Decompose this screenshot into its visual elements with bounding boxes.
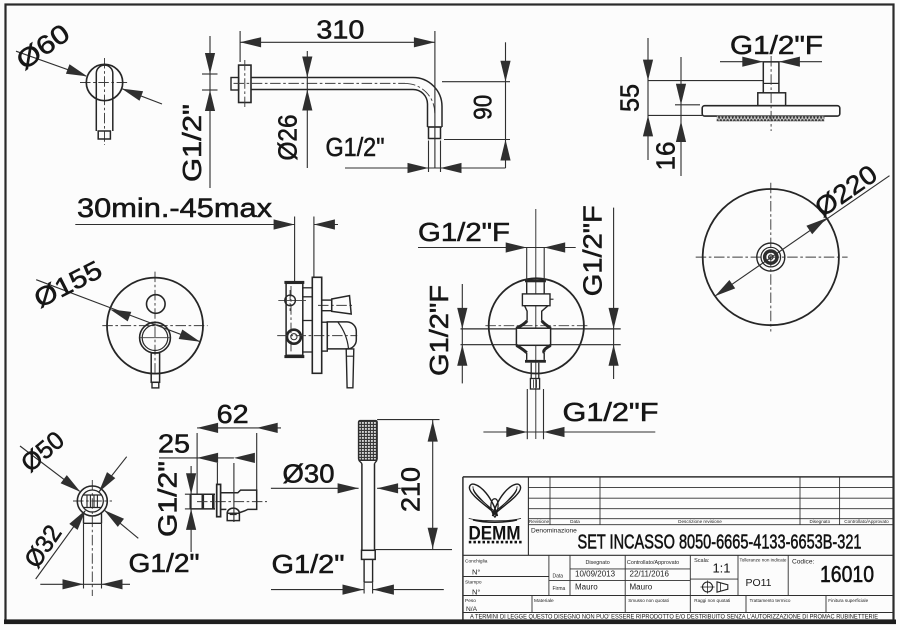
title block left cells Conchiglia Stampo Peso bbox=[465, 558, 488, 613]
mixer wall plate side view bbox=[312, 277, 321, 373]
svg-text:G1/2": G1/2" bbox=[177, 104, 207, 182]
dimension G1/2F valve top port bbox=[418, 217, 576, 280]
svg-text:Codice:: Codice: bbox=[792, 559, 815, 566]
valve front view port lines bbox=[461, 326, 621, 345]
svg-text:SET INCASSO 8050-6665-4133-665: SET INCASSO 8050-6665-4133-6653B-321 bbox=[578, 531, 862, 554]
svg-text:G1/2"F: G1/2"F bbox=[730, 30, 823, 60]
svg-text:62: 62 bbox=[217, 399, 249, 429]
valve front view body cross bbox=[489, 278, 584, 389]
svg-text:Tolleranze non indicate: Tolleranze non indicate bbox=[740, 558, 787, 563]
dimension Ø50 leader bbox=[20, 446, 138, 538]
svg-text:210: 210 bbox=[396, 467, 426, 512]
svg-text:Trattamento termico: Trattamento termico bbox=[750, 598, 791, 603]
label Ø32 bbox=[19, 520, 67, 573]
bracket inlet pipe side view bbox=[190, 494, 267, 509]
dimension Ø60 leader bbox=[16, 51, 162, 104]
svg-text:G1/2": G1/2" bbox=[129, 548, 200, 578]
dimension G1/2F head stem bbox=[720, 30, 823, 67]
dimension G1/2F valve bottom port bbox=[483, 389, 658, 439]
svg-text:Revisione: Revisione bbox=[529, 519, 550, 524]
valve inlet port lower circle bbox=[287, 330, 301, 344]
scala cell with projection symbol bbox=[694, 558, 730, 594]
dimension 310 bbox=[240, 14, 435, 168]
dimension G1/2 elbow outlet bbox=[40, 523, 199, 589]
svg-text:Data: Data bbox=[553, 574, 564, 580]
diverter knob side view bbox=[318, 296, 354, 314]
dimension 16 bbox=[651, 57, 701, 176]
shower arm tube with bend bbox=[234, 78, 443, 139]
svg-text:Finitura superficiale: Finitura superficiale bbox=[828, 598, 868, 603]
legal footer text bbox=[470, 613, 878, 620]
svg-text:Ø30: Ø30 bbox=[283, 459, 335, 489]
mixer valve rough-in body side view bbox=[284, 281, 304, 358]
bracket body side view bbox=[221, 490, 257, 520]
svg-text:Disegnato: Disegnato bbox=[585, 560, 609, 566]
tolleranze cell PO11 bbox=[740, 558, 787, 589]
valve front view center axis bbox=[535, 209, 537, 439]
label Ø155 bbox=[29, 254, 107, 313]
svg-text:Descrizione revisione: Descrizione revisione bbox=[678, 519, 722, 524]
revision table header labels bbox=[529, 519, 889, 524]
wall union front view (Ø60) bbox=[80, 58, 129, 145]
svg-text:Raggi non quotati: Raggi non quotati bbox=[694, 598, 730, 603]
svg-text:Denominazione: Denominazione bbox=[531, 528, 577, 535]
svg-text:G1/2": G1/2" bbox=[272, 549, 345, 579]
svg-text:Mauro: Mauro bbox=[575, 583, 598, 592]
shower head stem G1/2 side view bbox=[758, 62, 786, 106]
label Ø50 bbox=[16, 426, 70, 478]
svg-text:G1/2"F: G1/2"F bbox=[563, 397, 659, 427]
svg-text:Disegnato: Disegnato bbox=[809, 519, 830, 524]
svg-text:G1/2"F: G1/2"F bbox=[578, 205, 608, 296]
svg-text:22/11/2016: 22/11/2016 bbox=[630, 570, 670, 579]
title block data firma cells bbox=[553, 560, 680, 592]
dimension Ø155 leader bbox=[36, 280, 200, 342]
mixer lever front view bbox=[151, 353, 159, 388]
svg-text:1:1: 1:1 bbox=[712, 561, 730, 576]
dimension Ø220 leader bbox=[715, 176, 890, 296]
dimension Ø26 bbox=[273, 51, 313, 168]
mixer trim front view Ø155 plate bbox=[102, 272, 207, 374]
svg-text:Conchiglia: Conchiglia bbox=[465, 558, 488, 564]
valve body to plate steps bbox=[303, 288, 313, 352]
dimension 90 bbox=[442, 42, 511, 168]
svg-text:Firma: Firma bbox=[553, 586, 566, 592]
label G1/2 spout outlet bbox=[326, 132, 506, 173]
dimension Ø30 bbox=[271, 459, 401, 494]
codice cell 16010 bbox=[792, 559, 874, 588]
svg-text:G1/2"F: G1/2"F bbox=[418, 217, 510, 247]
DEMM logo bbox=[469, 484, 522, 544]
svg-text:Stampo: Stampo bbox=[465, 580, 482, 586]
label Ø60 bbox=[10, 18, 75, 76]
svg-text:PO11: PO11 bbox=[745, 577, 771, 589]
bracket wall flange bbox=[217, 484, 221, 516]
label Ø220 bbox=[809, 159, 883, 223]
svg-text:G1/2"F: G1/2"F bbox=[424, 285, 454, 376]
svg-text:Peso: Peso bbox=[465, 598, 476, 604]
svg-text:Controllato/Approvato: Controllato/Approvato bbox=[627, 560, 679, 566]
dimension 30min.-45max bbox=[75, 193, 338, 281]
svg-text:10/09/2013: 10/09/2013 bbox=[575, 570, 616, 579]
valve inlet port upper circle bbox=[278, 290, 306, 311]
dimension G1/2F valve left (rotated label) bbox=[424, 284, 467, 383]
svg-text:16010: 16010 bbox=[820, 561, 874, 587]
svg-text:Ø26: Ø26 bbox=[273, 115, 303, 161]
dimension 210 bbox=[375, 420, 452, 550]
svg-text:55: 55 bbox=[615, 84, 645, 112]
svg-text:30min.-45max: 30min.-45max bbox=[77, 193, 272, 223]
svg-text:90: 90 bbox=[470, 95, 498, 120]
dimension 25 bbox=[158, 429, 255, 523]
dimension G1/2F valve right (rotated label) bbox=[578, 205, 619, 379]
title block bottom row labels bbox=[534, 598, 869, 604]
dimension Ø32 leader bbox=[36, 457, 127, 579]
title block grid bbox=[463, 477, 894, 620]
shower head plate side view bbox=[702, 56, 840, 131]
denominazione cell bbox=[531, 528, 862, 554]
dimension G1/2 hand shower thread bbox=[271, 549, 444, 595]
shower head top view Ø220 disc bbox=[696, 183, 848, 332]
svg-text:Mauro: Mauro bbox=[630, 583, 653, 592]
dimension 55 bbox=[615, 38, 764, 160]
svg-text:G1/2": G1/2" bbox=[153, 461, 183, 537]
svg-text:Materiale: Materiale bbox=[534, 598, 554, 604]
svg-text:Data: Data bbox=[570, 519, 580, 524]
mixer handle side view bbox=[277, 322, 357, 351]
svg-text:25: 25 bbox=[158, 429, 190, 459]
dimension G1/2 bracket inlet (rotated label) bbox=[153, 461, 201, 552]
svg-text:Controllato/Approvato: Controllato/Approvato bbox=[844, 519, 889, 524]
svg-text:N°: N° bbox=[472, 568, 480, 577]
svg-text:DEMM: DEMM bbox=[469, 524, 521, 545]
svg-text:N°: N° bbox=[472, 587, 480, 596]
shower arm wall flange bbox=[231, 60, 251, 107]
dimension 62 bbox=[197, 399, 281, 490]
hand shower handle bbox=[362, 464, 376, 583]
svg-text:Scala:: Scala: bbox=[694, 558, 710, 564]
wall outlet elbow front view bbox=[73, 480, 112, 596]
hand shower head with spray face bbox=[359, 421, 378, 464]
mixer handle lever rod bbox=[346, 349, 354, 388]
svg-text:G1/2": G1/2" bbox=[326, 132, 385, 162]
svg-text:310: 310 bbox=[316, 14, 364, 44]
svg-text:16: 16 bbox=[651, 142, 681, 171]
svg-text:N/A: N/A bbox=[466, 606, 478, 613]
svg-text:A TERMINI DI LEGGE QUESTO DISE: A TERMINI DI LEGGE QUESTO DISEGNO NON PU… bbox=[470, 613, 878, 620]
dimension G1/2 flange thread (rotated label) bbox=[177, 36, 218, 188]
svg-text:Smusso non quotati: Smusso non quotati bbox=[628, 598, 669, 603]
